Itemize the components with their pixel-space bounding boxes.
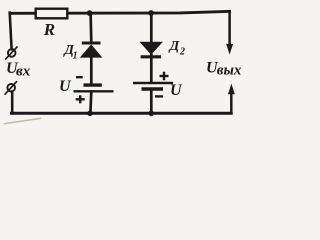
svg-text:вх: вх (16, 63, 31, 79)
svg-text:U: U (59, 78, 72, 95)
svg-text:вых: вых (217, 62, 242, 78)
svg-text:R: R (43, 20, 55, 39)
svg-text:Д: Д (168, 39, 180, 54)
svg-text:U: U (170, 82, 183, 99)
svg-text:2: 2 (179, 47, 185, 58)
svg-text:1: 1 (73, 50, 78, 61)
